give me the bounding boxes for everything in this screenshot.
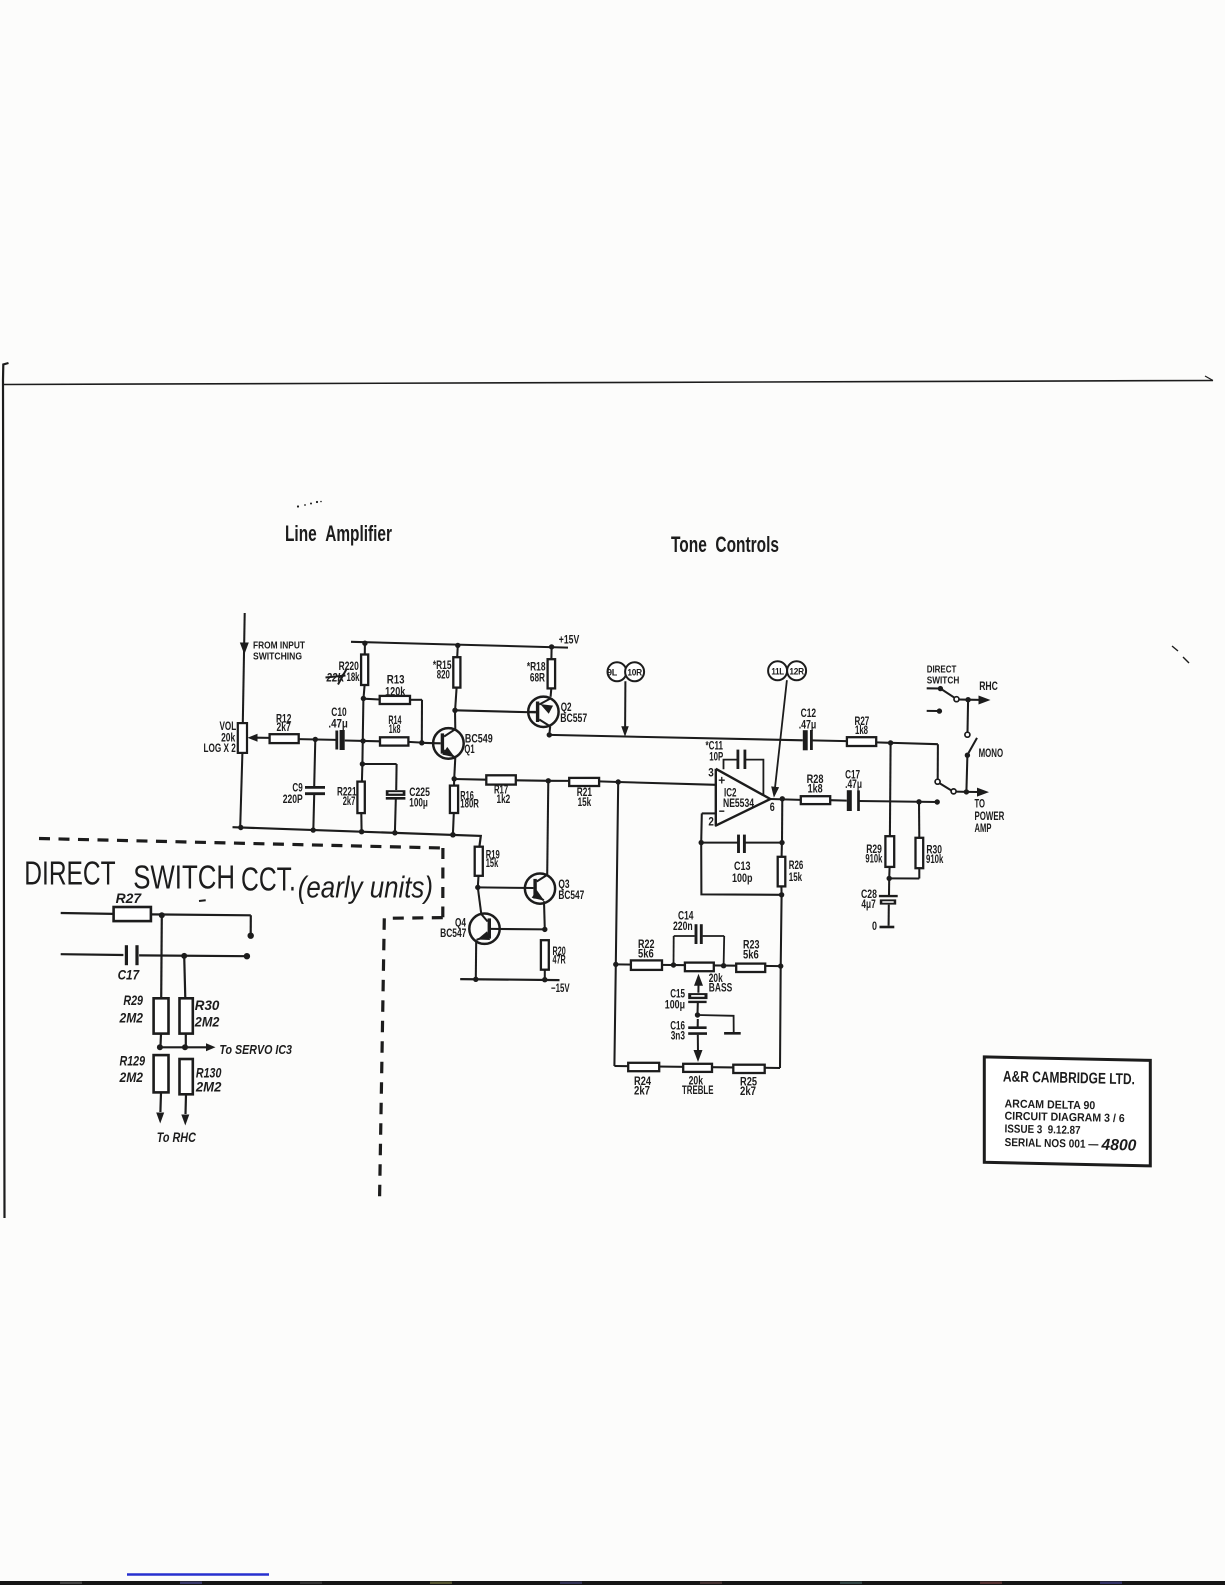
svg-text:+15V: +15V bbox=[559, 635, 580, 647]
svg-text:2k7: 2k7 bbox=[634, 1086, 650, 1098]
svg-text:15k: 15k bbox=[486, 858, 499, 870]
svg-text:SWITCHING: SWITCHING bbox=[253, 652, 302, 663]
svg-text:BC557: BC557 bbox=[560, 713, 587, 725]
svg-text:R26: R26 bbox=[789, 860, 804, 872]
svg-text:C9: C9 bbox=[292, 783, 302, 795]
svg-text:2: 2 bbox=[708, 817, 714, 829]
svg-text:11L: 11L bbox=[771, 667, 784, 678]
svg-text:1k2: 1k2 bbox=[497, 794, 511, 806]
svg-text:Line Amplifier: Line Amplifier bbox=[285, 521, 392, 546]
svg-text:SERIAL NOS 001 —: SERIAL NOS 001 — bbox=[1004, 1137, 1098, 1151]
svg-text:AMP: AMP bbox=[975, 823, 992, 835]
svg-text:R129: R129 bbox=[120, 1053, 146, 1069]
svg-text:100μ: 100μ bbox=[409, 798, 428, 810]
svg-text:2M2: 2M2 bbox=[119, 1069, 144, 1085]
svg-text:TREBLE: TREBLE bbox=[682, 1085, 714, 1097]
svg-text:9L: 9L bbox=[607, 668, 617, 679]
svg-text:100μ: 100μ bbox=[665, 1000, 685, 1012]
svg-text:2M2: 2M2 bbox=[195, 1079, 222, 1095]
svg-text:A&R CAMBRIDGE LTD.: A&R CAMBRIDGE LTD. bbox=[1003, 1069, 1135, 1089]
svg-text:C10: C10 bbox=[331, 707, 346, 719]
svg-text:C17: C17 bbox=[118, 967, 141, 983]
svg-text:2k7: 2k7 bbox=[740, 1086, 756, 1098]
svg-text:910k: 910k bbox=[865, 854, 882, 866]
svg-text:1k8: 1k8 bbox=[808, 784, 823, 796]
svg-text:3n3: 3n3 bbox=[671, 1031, 685, 1043]
svg-text:2k7: 2k7 bbox=[277, 722, 291, 734]
svg-text:BASS: BASS bbox=[709, 983, 733, 995]
svg-text:SWITCH: SWITCH bbox=[927, 674, 960, 686]
svg-text:C15: C15 bbox=[670, 989, 685, 1001]
svg-text:47R: 47R bbox=[553, 954, 567, 966]
svg-text:Tone Controls: Tone Controls bbox=[671, 532, 779, 557]
svg-text:2M2: 2M2 bbox=[194, 1014, 220, 1030]
svg-text:BC547: BC547 bbox=[440, 928, 466, 940]
svg-text:820: 820 bbox=[437, 670, 450, 682]
svg-text:R29: R29 bbox=[123, 992, 143, 1008]
svg-text:−: − bbox=[719, 804, 725, 819]
svg-text:Q1: Q1 bbox=[464, 744, 475, 756]
svg-text:R27: R27 bbox=[116, 890, 143, 906]
svg-text:120k: 120k bbox=[385, 687, 406, 699]
svg-text:10R: 10R bbox=[627, 668, 642, 679]
svg-text:LOG X 2: LOG X 2 bbox=[204, 743, 236, 755]
svg-text:12R: 12R bbox=[789, 667, 804, 678]
svg-text:0: 0 bbox=[872, 921, 877, 933]
svg-text:220n: 220n bbox=[673, 921, 693, 933]
svg-text:4μ7: 4μ7 bbox=[861, 899, 875, 911]
svg-text:3: 3 bbox=[708, 768, 714, 780]
svg-text:C13: C13 bbox=[734, 861, 751, 873]
svg-text:10P: 10P bbox=[709, 752, 723, 764]
svg-text:5k6: 5k6 bbox=[743, 950, 759, 962]
svg-text:R30: R30 bbox=[195, 997, 220, 1013]
svg-text:TO: TO bbox=[975, 799, 986, 811]
svg-text:FROM INPUT: FROM INPUT bbox=[253, 640, 305, 651]
svg-text:220P: 220P bbox=[283, 794, 303, 806]
svg-text:1k8: 1k8 bbox=[855, 725, 868, 737]
svg-text:POWER: POWER bbox=[975, 811, 1005, 823]
svg-text:100p: 100p bbox=[732, 873, 753, 885]
svg-text:DIRECT: DIRECT bbox=[24, 855, 115, 892]
svg-text:2M2: 2M2 bbox=[119, 1010, 144, 1026]
svg-text:To SЕRVO IC3: To SЕRVO IC3 bbox=[219, 1043, 292, 1057]
svg-text:5k6: 5k6 bbox=[638, 949, 654, 961]
svg-text:ISSUE 3 9.12.87: ISSUE 3 9.12.87 bbox=[1004, 1123, 1080, 1137]
svg-text:18k: 18k bbox=[347, 672, 360, 684]
svg-text:(early units): (early units) bbox=[298, 870, 433, 905]
svg-text:+: + bbox=[718, 773, 725, 788]
svg-text:.47μ: .47μ bbox=[799, 720, 817, 732]
svg-text:910k: 910k bbox=[926, 854, 944, 866]
svg-text:6: 6 bbox=[770, 802, 775, 814]
svg-text:NE5534: NE5534 bbox=[723, 798, 754, 810]
svg-text:RHC: RHC bbox=[979, 681, 998, 693]
svg-text:−15V: −15V bbox=[551, 983, 570, 995]
svg-text:2k7: 2k7 bbox=[343, 796, 356, 808]
svg-text:CCT.: CCT. bbox=[241, 861, 296, 898]
svg-text:To RHC: To RHC bbox=[157, 1130, 196, 1145]
svg-text:1k8: 1k8 bbox=[389, 724, 401, 736]
svg-text:15k: 15k bbox=[578, 797, 592, 809]
svg-text:.47μ: .47μ bbox=[328, 719, 348, 731]
svg-text:VOL: VOL bbox=[220, 721, 237, 733]
svg-text:Q2: Q2 bbox=[561, 702, 572, 714]
svg-text:C12: C12 bbox=[801, 708, 817, 720]
svg-text:.47μ: .47μ bbox=[845, 779, 862, 791]
svg-text:4800: 4800 bbox=[1100, 1137, 1136, 1155]
svg-text:R13: R13 bbox=[387, 675, 405, 687]
svg-text:MONO: MONO bbox=[979, 748, 1004, 760]
svg-text:15k: 15k bbox=[789, 872, 803, 884]
svg-text:68R: 68R bbox=[530, 672, 546, 684]
svg-text:SWITCH: SWITCH bbox=[133, 859, 235, 896]
svg-text:180R: 180R bbox=[460, 799, 479, 811]
svg-text:BC547: BC547 bbox=[558, 890, 584, 902]
